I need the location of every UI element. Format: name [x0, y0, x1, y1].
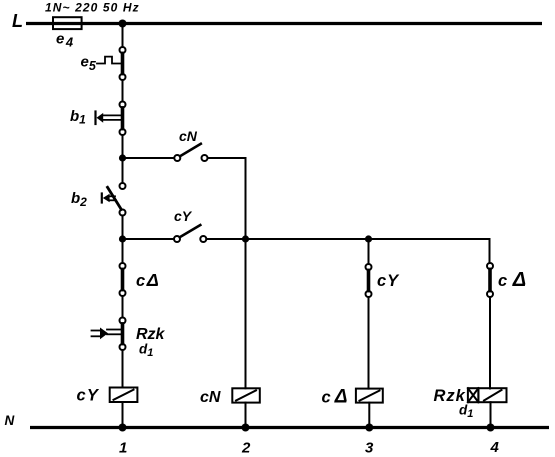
svg-text:cY: cY [174, 208, 193, 224]
wire b2 to node B [122, 216, 124, 239]
node junction L / branch 1 [119, 20, 127, 28]
node junction N / branch 2 [242, 424, 250, 432]
contact Rzk d1 (timed, NC) [120, 318, 126, 324]
wire branch 3 middle [368, 297, 370, 388]
wire branch 4 top [489, 239, 491, 263]
node junction N / branch 1 [119, 424, 127, 432]
wire d1 to coil cY [122, 350, 124, 387]
svg-text:cΔ: cΔ [322, 387, 348, 408]
svg-text:cΔ: cΔ [136, 270, 159, 290]
wire node A to b2 [122, 158, 124, 183]
wire N bus [30, 426, 549, 429]
wire branch 2 vertical [245, 239, 247, 388]
svg-text:N: N [5, 413, 15, 428]
contact cDelta (NC, branch 1) [120, 263, 126, 269]
wire branch 3 top [368, 239, 370, 264]
wire node B down to cDelta contact [122, 239, 124, 263]
wire node A to cN contact [123, 157, 175, 159]
svg-text:4: 4 [490, 439, 500, 456]
wire cDelta to d1 contact [122, 296, 124, 317]
wire branch 4 middle [489, 297, 491, 388]
coil cY [110, 388, 138, 403]
svg-text:Rzk: Rzk [136, 326, 166, 343]
contact cN (NO, self-hold) [174, 155, 180, 161]
coil cN [232, 388, 259, 402]
contact cY (branch 3) [366, 264, 372, 270]
svg-text:1: 1 [119, 440, 127, 457]
wire node B to cY contact [123, 238, 175, 240]
wire coil cY to N [122, 402, 124, 428]
contact cY (NO, horizontal) [174, 236, 180, 242]
pushbutton b2 (NO start) [120, 183, 126, 189]
wire coil cDelta to N [368, 403, 370, 428]
svg-text:L: L [12, 11, 23, 31]
wire b1 to node A [122, 135, 124, 158]
coil cDelta [356, 389, 383, 403]
svg-text:1N~ 220 50 Hz: 1N~ 220 50 Hz [45, 1, 140, 15]
switch e5 [120, 47, 126, 53]
contact cDelta (branch 4) [487, 263, 493, 269]
node A junction [119, 154, 126, 161]
wire L bus [26, 22, 542, 25]
fuse e4 [53, 17, 82, 29]
wire e5 to b1 [122, 80, 124, 101]
pushbutton b1 (NC stop) [120, 102, 126, 108]
svg-text:cY: cY [77, 387, 100, 405]
wire branch1 top [122, 24, 124, 47]
node junction N / branch 4 [487, 424, 495, 432]
node B junction [119, 235, 126, 242]
wire cN contact to branch 2 corner [208, 158, 246, 239]
svg-text:2: 2 [241, 440, 251, 457]
svg-text:3: 3 [365, 440, 374, 457]
wire coil cN to N [245, 403, 247, 428]
wire coil Rzk to N [490, 402, 492, 427]
svg-text:cN: cN [179, 128, 198, 144]
node junction N / branch 3 [365, 424, 373, 432]
coil Rzk d1 (time relay) [468, 388, 479, 402]
wire cY contact to right corner [206, 238, 489, 240]
svg-text:cN: cN [200, 389, 221, 406]
svg-text:cΔ: cΔ [498, 269, 526, 291]
svg-text:cY: cY [377, 272, 400, 290]
node junction branch 2 on cY line [242, 235, 249, 242]
node junction branch 3 on cY line [365, 235, 372, 242]
